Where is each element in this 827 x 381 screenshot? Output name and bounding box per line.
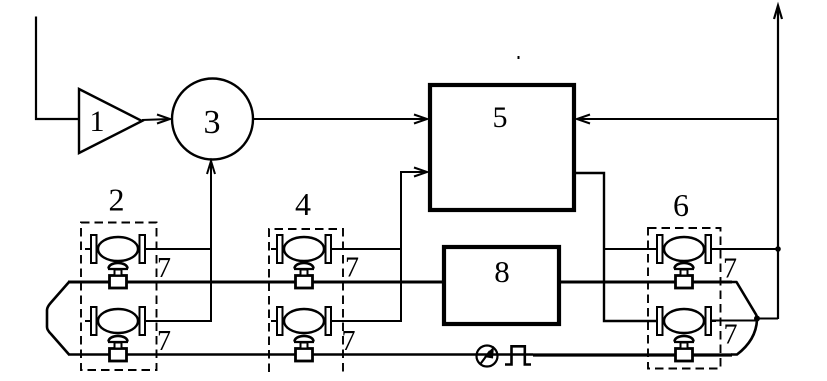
svg-text:7: 7 bbox=[157, 253, 171, 284]
flowmeter group6 lower bbox=[651, 307, 716, 335]
svg-text:7: 7 bbox=[157, 326, 171, 357]
svg-text:7: 7 bbox=[724, 320, 738, 351]
wire amp to summer with arrow bbox=[142, 115, 170, 124]
flowmeter group2 lower bbox=[85, 307, 150, 335]
summer 3 bbox=[172, 79, 253, 160]
svg-text:4: 4 bbox=[295, 186, 311, 222]
flowmeter group4 lower bbox=[271, 307, 336, 335]
svg-text:3: 3 bbox=[204, 104, 221, 141]
flowmeter group2 upper bbox=[85, 235, 150, 263]
wire summer to block5 with arrow bbox=[253, 115, 427, 124]
wire group6 to right vertical bbox=[711, 247, 780, 320]
svg-text:8: 8 bbox=[494, 254, 510, 289]
flowmeter group6 upper bbox=[651, 235, 716, 263]
svg-text:7: 7 bbox=[345, 253, 359, 284]
flowmeter group4 upper bbox=[271, 235, 336, 263]
wire block5 lower-right to group6 flowmeters bbox=[576, 173, 658, 321]
stray dot bbox=[518, 56, 520, 59]
group 4 dashed box (bottom edge missing) bbox=[269, 186, 343, 372]
pipe bottom run bbox=[68, 353, 732, 356]
block 8 bbox=[444, 247, 559, 324]
svg-text:7: 7 bbox=[723, 254, 737, 285]
svg-text:2: 2 bbox=[109, 182, 125, 218]
svg-text:5: 5 bbox=[493, 101, 508, 134]
valve 7 group4 upper bbox=[294, 253, 359, 289]
wire right into block5 with arrow bbox=[577, 115, 778, 124]
pulse signal symbol bbox=[505, 346, 531, 364]
block 5 bbox=[430, 85, 574, 210]
group 2 dashed box bbox=[81, 182, 157, 371]
wire input vertical top-left bbox=[36, 17, 79, 120]
pipe left end bracket bbox=[47, 282, 69, 355]
amplifier 1 bbox=[79, 89, 142, 153]
valve 7 group6 upper bbox=[674, 254, 737, 289]
wire right vertical with top arrow bbox=[774, 6, 782, 320]
wire group4 flowmeters to block5 lower-left with arrow bbox=[331, 168, 427, 322]
svg-text:6: 6 bbox=[673, 187, 689, 223]
pipe top run bbox=[68, 281, 732, 284]
pipe right end bracket bbox=[731, 282, 757, 355]
valve 7 group2 lower bbox=[108, 326, 171, 361]
wire group2 flowmeters to summer bottom input bbox=[144, 161, 215, 321]
svg-text:1: 1 bbox=[90, 105, 105, 138]
valve 7 group2 upper bbox=[108, 253, 171, 288]
valve 7 group6 lower bbox=[674, 320, 738, 362]
group 6 dashed box bbox=[648, 187, 721, 369]
turbine sensor on bottom pipe bbox=[477, 346, 498, 367]
valve 7 group4 lower bbox=[294, 326, 356, 361]
